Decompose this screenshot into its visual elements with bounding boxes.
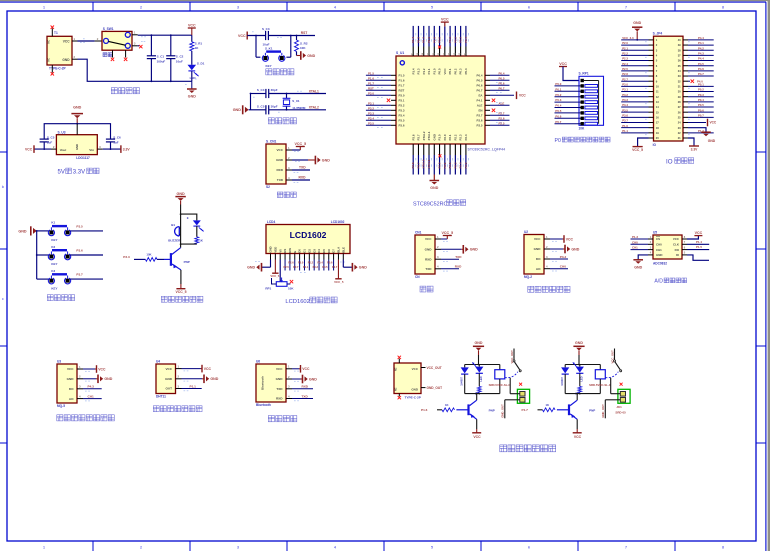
svg-text:37: 37 (678, 53, 681, 57)
svg-text:VCC: VCC (574, 435, 582, 439)
svg-text:P1.5: P1.5 (696, 245, 702, 249)
label S_C6 (113, 135, 121, 139)
svg-text:TXD: TXD (277, 178, 284, 182)
T2 bottom pin stub (398, 394, 401, 400)
wire R2 upper lead (296, 36, 298, 41)
label relay model Q2 (489, 383, 522, 387)
svg-text:P1.7: P1.7 (399, 84, 405, 88)
no-connect X chip top (438, 46, 441, 49)
svg-text:P2.6: P2.6 (477, 119, 483, 123)
svg-text:STC89C52RC: STC89C52RC (413, 201, 448, 207)
svg-text:GND: GND (430, 186, 438, 190)
label S_RP1 (579, 72, 589, 76)
resistor base 1K Q3 (543, 403, 556, 412)
svg-text:GND: GND (210, 377, 218, 381)
svg-text:30pF: 30pF (271, 104, 278, 108)
label LDO1117 (76, 156, 90, 160)
svg-text:VCC: VCC (473, 435, 481, 439)
connector S_CN1 download (266, 144, 286, 184)
svg-text:TYPE-C-2P: TYPE-C-2P (405, 396, 421, 400)
svg-text:P0.4: P0.4 (477, 74, 483, 78)
svg-text:GND: GND (633, 21, 641, 25)
svg-text:E: E (293, 251, 297, 253)
svg-text:STC89C52RC_LQFP44: STC89C52RC_LQFP44 (468, 147, 506, 151)
wire terminal pin2 Q3 (605, 400, 620, 419)
label IO below (653, 143, 657, 147)
ground symbol LCD right (352, 263, 367, 272)
svg-text:P2.5: P2.5 (499, 121, 505, 125)
IC U5 ADC0832 body (653, 235, 682, 259)
svg-text:XTAL1: XTAL1 (309, 89, 319, 93)
LCD1602 module body (266, 225, 350, 254)
svg-text:GND: GND (432, 134, 436, 140)
svg-text:VCC: VCC (695, 231, 703, 235)
svg-text:1K: 1K (199, 239, 203, 243)
svg-text:GND_OUT: GND_OUT (601, 404, 605, 418)
svg-text:VCC_5: VCC_5 (270, 274, 279, 278)
svg-text:KEY: KEY (266, 64, 272, 68)
svg-text:36: 36 (678, 59, 681, 63)
wire ADC VCC (687, 231, 703, 239)
svg-text:RXD: RXD (276, 397, 283, 401)
resistor alarm R (195, 237, 199, 244)
svg-text:5: 5 (431, 6, 433, 10)
svg-text:32: 32 (678, 79, 681, 83)
svg-text:LCD1602: LCD1602 (285, 299, 310, 305)
svg-text:K2: K2 (51, 245, 55, 249)
label SRD-05 (615, 410, 626, 414)
svg-text:S_JP4: S_JP4 (653, 32, 663, 36)
net label P3.7 (76, 273, 83, 277)
power symbol VCC relay Q2 (472, 433, 481, 439)
label TYPE-C-2P T2 (405, 396, 421, 400)
power symbol VCC relay Q3 (573, 433, 582, 439)
capacitor S_C6 (106, 139, 115, 142)
svg-text:7: 7 (625, 546, 627, 550)
net label P1.1 humidity module U4 (190, 384, 197, 388)
svg-text:VCC: VCC (165, 367, 172, 371)
svg-text:11: 11 (656, 90, 659, 94)
svg-text:GND: GND (247, 266, 255, 270)
svg-text:P0.4: P0.4 (499, 71, 505, 75)
T2 top pin stub (398, 356, 401, 363)
svg-text:P1.6: P1.6 (399, 79, 405, 83)
wire bluetooth module U6 VCC (292, 368, 301, 370)
terminal block Q2 (517, 389, 529, 403)
ground symbol smoke module U2 (565, 245, 580, 254)
net label TXD bluetooth module U6 (302, 394, 309, 398)
net label CH1 gas module U3 (88, 394, 94, 398)
svg-text:P3.1: P3.1 (399, 99, 405, 103)
svg-text:P0.6: P0.6 (499, 81, 505, 85)
svg-text:P1.1: P1.1 (190, 384, 197, 388)
wire key3 to net (70, 278, 103, 280)
svg-text:P0.5: P0.5 (499, 76, 505, 80)
svg-text:13: 13 (656, 100, 659, 104)
svg-text:VCC: VCC (566, 237, 574, 241)
wire R1 upper lead (191, 35, 193, 42)
svg-text:P2.4: P2.4 (459, 162, 463, 168)
svg-text:XTAL2: XTAL2 (422, 159, 426, 168)
svg-text:P0.5: P0.5 (322, 265, 328, 269)
svg-text:GND: GND (276, 377, 284, 381)
wire SW1 pin3 open (138, 42, 146, 46)
svg-text:PNP: PNP (589, 408, 595, 412)
svg-text:AO: AO (536, 267, 541, 271)
label 10uF (176, 59, 183, 63)
ADC left wires and labels (631, 235, 654, 255)
svg-text:10K: 10K (579, 127, 586, 131)
svg-text:P0.4: P0.4 (698, 98, 704, 102)
download pin3 stub (286, 166, 292, 170)
resistor S_R1 (190, 42, 194, 51)
power symbol VCC reset (238, 32, 247, 40)
LED relay indicator Q2 (472, 362, 483, 386)
svg-text:VCC: VCC (710, 121, 717, 125)
svg-text:8: 8 (722, 546, 724, 550)
svg-text:S_C2: S_C2 (176, 55, 184, 59)
svg-text:VCC_OUT: VCC_OUT (610, 350, 614, 364)
net label XTAL2 (278, 106, 319, 113)
svg-text:P0.7: P0.7 (698, 113, 704, 117)
wire gas module U3 CH1 (83, 398, 102, 400)
svg-text:P0.1: P0.1 (448, 37, 452, 43)
svg-text:DO: DO (69, 387, 74, 391)
T1 pin2 stub (72, 55, 78, 59)
no-connect X chip bottom (438, 154, 441, 157)
smoke module U2 body (524, 235, 544, 275)
svg-text:NC: NC (47, 58, 50, 62)
wire ADC DI (687, 255, 709, 260)
svg-text:GND: GND (309, 377, 317, 381)
svg-text:AO: AO (69, 397, 74, 401)
ground symbol serial port CN1 (463, 245, 478, 254)
label S_C2 (176, 55, 184, 59)
svg-text:ADC0832: ADC0832 (653, 262, 667, 266)
caption lanya (268, 416, 297, 422)
svg-text:KEY: KEY (51, 286, 57, 290)
relay switch contact Q3 (605, 349, 621, 378)
net label P4.3 gas module U3 (88, 385, 95, 389)
svg-text:TXD: TXD (299, 166, 306, 170)
svg-text:GND: GND (233, 108, 242, 112)
transistor Q1 PNP (164, 248, 181, 270)
svg-text:VCC_5: VCC_5 (176, 290, 187, 294)
svg-text:DO: DO (675, 248, 680, 252)
LED S_D1 (188, 65, 199, 76)
svg-text:U6: U6 (256, 360, 260, 364)
ground symbol reset (301, 51, 316, 60)
power symbol VCC input (25, 145, 34, 153)
wire collector Q3 (576, 394, 578, 401)
svg-text:D2: D2 (307, 249, 311, 253)
svg-text:P3.7: P3.7 (622, 119, 628, 123)
gas module U3 pin1 stub (77, 365, 90, 372)
net label TXD serial port CN1 (455, 255, 462, 259)
svg-text:P0.3: P0.3 (313, 265, 319, 269)
svg-text:U2: U2 (524, 230, 528, 234)
LED alarm D2 (193, 220, 204, 231)
svg-text:P2.6: P2.6 (288, 261, 294, 265)
svg-text:B1: B1 (171, 223, 175, 227)
label S_C1 (157, 55, 165, 59)
svg-text:GND: GND (62, 58, 70, 62)
svg-text:P3.7: P3.7 (76, 273, 83, 277)
humidity module U4 body (156, 364, 176, 394)
wire LCD BLE gnd (343, 260, 352, 268)
label S_C4 value (271, 88, 278, 92)
svg-text:4: 4 (334, 546, 336, 550)
svg-text:100uF: 100uF (157, 59, 166, 63)
caption p0 pullup (555, 137, 611, 144)
svg-text:P2.5: P2.5 (283, 265, 289, 269)
svg-text:6: 6 (528, 6, 530, 10)
svg-text:P1.7: P1.7 (522, 408, 529, 412)
svg-text:P1.0: P1.0 (622, 124, 628, 128)
svg-text:BLA: BLA (337, 247, 341, 253)
svg-text:GND: GND (575, 341, 583, 345)
label LED (190, 76, 197, 80)
svg-text:P0.4: P0.4 (555, 104, 561, 108)
svg-text:GND: GND (165, 377, 173, 381)
wire collector Q2 (476, 394, 478, 401)
svg-text:P2.2: P2.2 (622, 51, 628, 55)
wire gas module U3 GND (83, 378, 98, 380)
svg-text:EN: EN (478, 109, 482, 113)
svg-text:IO: IO (666, 158, 673, 165)
wire humidity module U4 GND (182, 378, 204, 380)
svg-text:S_C5: S_C5 (257, 104, 265, 108)
resistor relay LED Q3 (575, 386, 581, 395)
svg-text:1K: 1K (546, 403, 550, 407)
svg-text:P3.5: P3.5 (368, 121, 374, 125)
svg-text:b: b (2, 185, 4, 189)
chip bottom pin names (411, 131, 468, 140)
svg-text:Vin: Vin (89, 148, 94, 152)
svg-text:1K: 1K (445, 403, 449, 407)
wire cap S_C2 upper lead (170, 35, 172, 56)
smoke module U2 pin2 stub (544, 245, 557, 252)
svg-text:P0.0: P0.0 (438, 68, 442, 74)
svg-text:ALE: ALE (499, 101, 505, 105)
svg-text:S_K1: S_K1 (265, 47, 273, 51)
svg-text:38: 38 (678, 48, 681, 52)
no-connect X on T1 top pin (51, 26, 54, 29)
svg-text:CS: CS (656, 237, 660, 241)
svg-text:VCC_5: VCC_5 (295, 142, 307, 146)
svg-text:MQ-2: MQ-2 (524, 275, 532, 279)
svg-text:LDO1117: LDO1117 (76, 156, 90, 160)
diode D1 flyback Q2 (461, 365, 469, 394)
net label P3.6 (76, 248, 83, 252)
svg-text:P1.5: P1.5 (368, 71, 374, 75)
svg-text:LCD1602: LCD1602 (290, 230, 327, 240)
svg-text:P2.6: P2.6 (622, 72, 628, 76)
svg-text:P2.4: P2.4 (622, 62, 628, 66)
ground symbol IO top (632, 21, 642, 41)
svg-text:P0.3: P0.3 (698, 93, 704, 97)
T1 pin1 stub (72, 37, 78, 41)
caption LCD display module (285, 297, 337, 305)
power symbol VCC (188, 23, 196, 35)
switch S_SW1 body (102, 31, 132, 50)
wire terminal pin1 Q3 (611, 378, 621, 394)
svg-text:NC: NC (47, 40, 50, 44)
svg-text:2: 2 (140, 546, 142, 550)
wire T1 pin1 to SW1 (78, 39, 95, 43)
svg-text:BLE: BLE (341, 247, 345, 253)
wire download RXD (292, 180, 310, 183)
svg-text:P1.4: P1.4 (696, 240, 702, 244)
svg-text:P3.6: P3.6 (411, 162, 415, 168)
LDO right pin stub (97, 145, 103, 149)
svg-text:SRD-5VDC-SL-C: SRD-5VDC-SL-C (489, 383, 511, 387)
svg-text:D3: D3 (312, 249, 316, 253)
net label VCC_OUT (427, 366, 442, 370)
ground symbol relay Q3 (573, 341, 584, 364)
svg-text:P0.3: P0.3 (459, 37, 463, 43)
wire LDO top rail (44, 123, 110, 139)
wire key1 to net (70, 230, 103, 232)
label kaiguan (103, 53, 112, 57)
serial port CN1 pin2 stub (435, 245, 448, 252)
svg-text:TXD: TXD (425, 267, 432, 271)
chip top net labels (411, 37, 468, 43)
ground symbol keys (18, 226, 36, 235)
power symbol VCC gas module U3 (97, 365, 107, 373)
chip right dash artifacts (496, 83, 502, 123)
svg-text:3.3V: 3.3V (691, 148, 699, 152)
svg-text:P2.0: P2.0 (438, 162, 442, 168)
no-connect X pot right (290, 280, 293, 283)
label S_C5b (257, 104, 265, 108)
svg-text:40: 40 (678, 38, 681, 42)
wire serial port CN1 RXD (441, 268, 459, 270)
svg-text:S2: S2 (266, 185, 270, 189)
label RP1 value (288, 286, 294, 290)
net label TXD download (299, 166, 306, 170)
label S_C6 value (113, 141, 119, 145)
svg-text:VCC: VCC (412, 367, 419, 371)
power symbol VCC pullup (559, 62, 567, 67)
svg-text:P2.7: P2.7 (622, 77, 628, 81)
svg-text:VCC_OUT: VCC_OUT (510, 350, 514, 364)
svg-text:P3.2: P3.2 (368, 106, 374, 110)
svg-text:P3.0: P3.0 (399, 94, 405, 98)
svg-text:P3.6: P3.6 (411, 134, 415, 140)
svg-text:RP1: RP1 (265, 286, 271, 290)
net label RXD serial port CN1 (455, 265, 462, 269)
wire bluetooth module U6 GND (292, 378, 302, 380)
svg-text:RXD: RXD (425, 257, 432, 261)
caption relay control (500, 445, 556, 452)
wire XTAL1 net (269, 93, 326, 95)
svg-text:P4.4: P4.4 (698, 36, 704, 40)
connector T1 TYPE-C-2P (47, 36, 72, 65)
pushbutton K3 (48, 269, 70, 290)
caption shengguangbaojing (161, 296, 203, 302)
svg-text:P0.0: P0.0 (438, 37, 442, 43)
svg-text:KEY: KEY (51, 238, 57, 242)
svg-text:RS: RS (283, 249, 287, 253)
svg-text:CH1: CH1 (88, 394, 94, 398)
label relay model Q3 (589, 383, 623, 387)
svg-text:S_U1: S_U1 (396, 51, 404, 55)
svg-text:P4.4: P4.4 (698, 57, 704, 61)
svg-text:P0.0: P0.0 (555, 82, 561, 86)
svg-text:GND: GND (75, 144, 79, 150)
svg-text:P2.7: P2.7 (477, 114, 483, 118)
wire serial port CN1 GND (441, 248, 463, 250)
svg-text:Bluetooth: Bluetooth (261, 376, 265, 390)
terminal block Q3 (618, 389, 630, 403)
svg-text:P0.3: P0.3 (555, 98, 561, 102)
bluetooth module U6 pin4 stub (286, 394, 299, 401)
pushbutton S_K1 (262, 52, 285, 62)
svg-text:D5: D5 (322, 249, 326, 253)
svg-text:P1.1: P1.1 (622, 129, 628, 133)
wire cap S_C2 lower lead (170, 59, 172, 82)
svg-text:35: 35 (678, 64, 681, 68)
svg-text:V0: V0 (278, 249, 282, 253)
bluetooth module U6 pin3 stub (286, 385, 299, 392)
svg-text:1uF: 1uF (113, 141, 119, 145)
resistor S_R2 (295, 40, 299, 52)
svg-text:RXD: RXD (299, 176, 307, 180)
svg-text:CN: CN (415, 275, 420, 279)
wire cap S_C1 upper lead (150, 35, 152, 56)
wire T2 GND_OUT (421, 387, 426, 389)
LDO GND pin stub (76, 124, 78, 135)
label S_U1 (396, 51, 404, 55)
svg-text:CN1: CN1 (415, 231, 422, 235)
caption keranqiti (57, 415, 115, 421)
pushbutton K1 (48, 221, 70, 242)
wire LED to resistor (196, 226, 198, 237)
svg-text:GND: GND (18, 229, 27, 233)
svg-text:P3.5: P3.5 (399, 119, 405, 123)
LDO left pin stub (51, 145, 56, 149)
svg-text:P0.5: P0.5 (555, 109, 561, 113)
capacitor S_C2 (166, 56, 175, 59)
svg-text:P3.3: P3.3 (622, 98, 628, 102)
SW1 right pin1 stub (132, 31, 138, 35)
svg-text:RW: RW (288, 248, 292, 253)
bluetooth module U6 pin2 stub (286, 375, 299, 382)
label CN1 (415, 231, 422, 235)
power symbol VCC humidity module U4 (202, 365, 212, 373)
label B1 (171, 223, 175, 227)
label 1K (195, 46, 200, 50)
chip left dash artifacts (377, 78, 383, 128)
power symbol VCC chip top (441, 18, 449, 27)
svg-text:ALE: ALE (477, 104, 483, 108)
svg-text:GND: GND (534, 247, 542, 251)
sheet edge shading right (768, 0, 770, 551)
ground symbol crystal (233, 105, 249, 114)
svg-text:XTAL1: XTAL1 (427, 131, 431, 140)
svg-text:VCC: VCC (673, 237, 680, 241)
ground symbol LDO top (71, 106, 83, 124)
svg-text:P1.5: P1.5 (399, 74, 405, 78)
serial port CN1 body (415, 235, 435, 274)
wire S_C6 lower lead (110, 142, 112, 150)
svg-text:P1.6: P1.6 (368, 76, 374, 80)
wire emitter Q3 (576, 419, 578, 433)
svg-text:VCC: VCC (425, 237, 432, 241)
svg-text:P1.2: P1.2 (422, 37, 426, 43)
regulator S_U3 LDO (56, 135, 97, 155)
